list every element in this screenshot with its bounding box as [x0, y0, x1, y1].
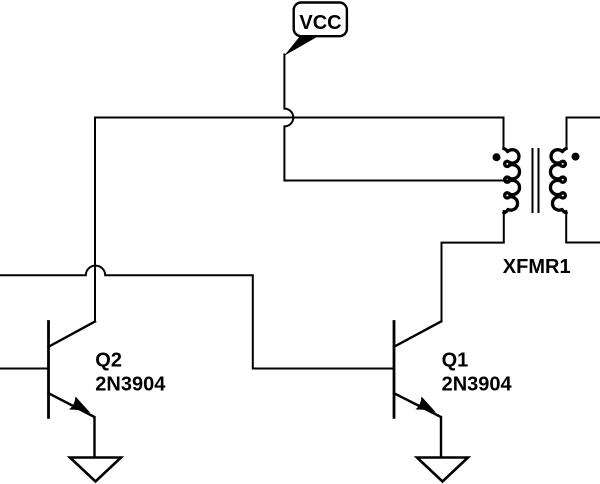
svg-text:2N3904: 2N3904	[95, 374, 166, 396]
svg-text:VCC: VCC	[299, 12, 341, 34]
wire Q2 base	[0, 368, 47, 370]
ground (Q1 emitter)	[417, 458, 468, 482]
wire Q2 collector (vertical)	[94, 118, 96, 322]
phasing dot primary	[493, 153, 501, 161]
wire Q1 base network (hops over Q2 collector wire)	[0, 266, 393, 369]
wire XFMR1 primary pin 2 to Q1 collector	[442, 211, 504, 322]
wire XFMR1 secondary bottom lead	[566, 211, 600, 243]
svg-text:Q1: Q1	[442, 350, 469, 372]
transformer XFMR1 core	[533, 149, 539, 212]
power flag VCC	[284, 3, 347, 56]
transistor Q1	[394, 322, 441, 457]
svg-text:Q2: Q2	[95, 350, 122, 372]
wire top rail: Q2 collector to XFMR1 primary pin 1	[95, 118, 504, 150]
wire VCC to XFMR1 primary center tap (hops over top rail)	[284, 55, 514, 181]
ground (Q2 emitter)	[70, 458, 121, 482]
phasing dot secondary	[572, 153, 580, 161]
svg-text:XFMR1: XFMR1	[503, 256, 571, 278]
transformer XFMR1 secondary winding	[550, 149, 566, 213]
svg-text:2N3904: 2N3904	[442, 374, 513, 396]
wire XFMR1 secondary top lead	[567, 118, 600, 150]
transistor Q2	[49, 322, 96, 457]
transformer XFMR1 primary winding	[504, 149, 520, 213]
